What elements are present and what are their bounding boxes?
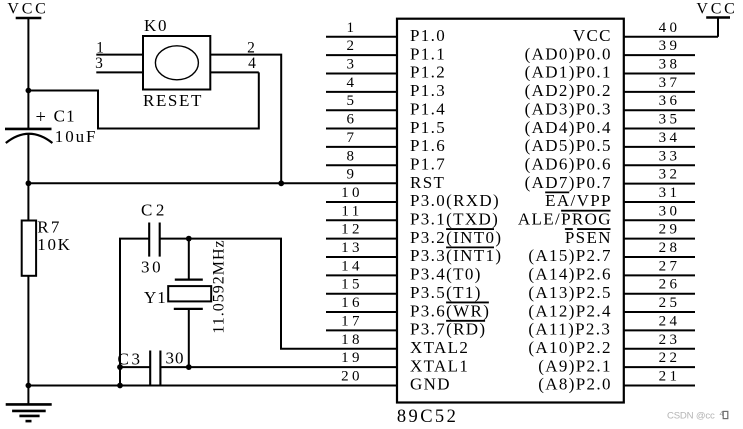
svg-text:P3.1(TXD): P3.1(TXD): [410, 210, 499, 229]
svg-text:P3.5(T1): P3.5(T1): [410, 283, 482, 302]
svg-text:XTAL2: XTAL2: [410, 338, 469, 357]
wire crystal bottom lead: [188, 309, 190, 367]
wire IC pin 6: [326, 128, 397, 130]
svg-text:39: 39: [659, 38, 681, 54]
wire IC pin 2: [326, 54, 397, 56]
svg-text:40: 40: [659, 20, 681, 36]
wire IC pin 5: [326, 109, 397, 111]
crystal Y1 body: [168, 286, 211, 301]
wire IC pin 29: [624, 238, 695, 240]
svg-text:32: 32: [659, 167, 681, 183]
wire IC pin 15: [326, 293, 397, 295]
wire IC pin 7: [326, 146, 397, 148]
svg-text:3: 3: [95, 55, 103, 72]
svg-text:XTAL1: XTAL1: [410, 356, 469, 375]
svg-text:14: 14: [341, 258, 363, 274]
wire switch pin 3: [96, 71, 143, 73]
wire GND line to IC pin 20: [28, 385, 397, 387]
svg-text:26: 26: [659, 277, 681, 293]
wire IC pin 33: [624, 164, 695, 166]
svg-text:(A13)P2.5: (A13)P2.5: [528, 283, 611, 302]
wire IC pin 22: [624, 366, 695, 368]
svg-text:P3.0(RXD): P3.0(RXD): [410, 191, 500, 210]
wire XTAL1 to IC pin 19: [160, 366, 397, 368]
wire IC pin 1: [326, 36, 397, 38]
svg-text:P1.6: P1.6: [410, 136, 446, 155]
svg-text:P3.7(RD): P3.7(RD): [410, 320, 486, 339]
svg-text:P1.2: P1.2: [410, 63, 446, 82]
ground symbol bar 2: [12, 410, 46, 413]
VCC bar (right): [706, 16, 730, 19]
pin 30 active-low overline: [561, 210, 610, 212]
pin 16 active-low overline: [446, 301, 489, 303]
svg-text:R7: R7: [37, 218, 61, 237]
wire C2 left: [120, 239, 149, 386]
node junction reset-RST: [278, 180, 284, 186]
svg-text:31: 31: [659, 185, 681, 201]
svg-text:(A15)P2.7: (A15)P2.7: [528, 246, 611, 265]
svg-text:P3.6(WR): P3.6(WR): [410, 301, 490, 320]
svg-text:20: 20: [341, 368, 363, 384]
wire C2 right to XTAL2 and IC pin 18: [160, 239, 397, 349]
svg-text:PSEN: PSEN: [565, 228, 612, 247]
svg-text:(A14)P2.6: (A14)P2.6: [528, 265, 611, 284]
resistor R7 body: [22, 221, 36, 276]
svg-text:P1.1: P1.1: [410, 44, 446, 63]
svg-text:1: 1: [347, 20, 358, 36]
svg-text:38: 38: [659, 57, 681, 73]
wire RST line to IC pin 9: [28, 182, 397, 184]
node junction crystal-bottom: [186, 364, 192, 370]
ground symbol bar 1: [6, 403, 52, 406]
svg-text:4: 4: [347, 75, 358, 91]
svg-text:(AD1)P0.1: (AD1)P0.1: [525, 63, 612, 82]
pin 29 PSEN overline part 2: [577, 228, 610, 230]
svg-text:(AD0)P0.0: (AD0)P0.0: [525, 44, 612, 63]
svg-text:22: 22: [659, 350, 681, 366]
switch K0 button circle: [155, 46, 198, 80]
svg-text:29: 29: [659, 222, 681, 238]
wire IC pin 3: [326, 73, 397, 75]
svg-text:24: 24: [659, 313, 681, 329]
wire IC pin 35: [624, 128, 695, 130]
svg-text:(A11)P2.3: (A11)P2.3: [528, 320, 611, 339]
wire IC pin 30: [624, 219, 695, 221]
wire C3 left: [119, 366, 150, 368]
wire IC pin 12: [326, 238, 397, 240]
pin 17 active-low overline: [446, 320, 485, 322]
svg-text:K0: K0: [144, 16, 168, 35]
svg-text:(A8)P2.0: (A8)P2.0: [538, 375, 612, 394]
svg-text:37: 37: [659, 75, 681, 91]
svg-text:(AD2)P0.2: (AD2)P0.2: [525, 81, 612, 100]
wire IC pin 23: [624, 348, 695, 350]
wire IC pin 21: [624, 384, 695, 386]
svg-text:13: 13: [341, 240, 363, 256]
wire IC pin 10: [326, 201, 397, 203]
wire IC pin 17: [326, 329, 397, 331]
svg-text:P3.3(INT1): P3.3(INT1): [410, 246, 502, 265]
wire switch pin 2 to RST node: [210, 55, 281, 184]
capacitor C2 right plate: [159, 223, 161, 257]
svg-text:25: 25: [659, 295, 681, 311]
ground symbol bar 3: [19, 415, 39, 418]
svg-text:6: 6: [347, 112, 358, 128]
switch K0 body: [143, 36, 210, 90]
crystal Y1 bottom plate: [174, 308, 203, 310]
capacitor C1 top plate: [5, 128, 52, 131]
svg-text:P1.3: P1.3: [410, 81, 446, 100]
svg-text:(AD3)P0.3: (AD3)P0.3: [525, 99, 612, 118]
svg-text:21: 21: [659, 368, 681, 384]
svg-text:8: 8: [347, 148, 358, 164]
node junction ground-C2C3: [117, 383, 123, 389]
svg-text:VCC: VCC: [696, 0, 737, 17]
wire IC pin 14: [326, 274, 397, 276]
node junction C3-left: [117, 364, 123, 370]
node junction RST: [26, 180, 32, 186]
svg-text:10uF: 10uF: [55, 127, 98, 146]
wire switch pin 4: [210, 71, 258, 73]
svg-text:P3.2(INT0): P3.2(INT0): [410, 228, 502, 247]
svg-text:(AD4)P0.4: (AD4)P0.4: [525, 118, 612, 137]
node junction VCC branch: [26, 88, 32, 94]
svg-text:11: 11: [341, 203, 362, 219]
wire IC pin 36: [624, 109, 695, 111]
pin 31 active-low overline: [545, 191, 569, 193]
wire VCC to C1 (main vertical): [27, 18, 29, 128]
svg-text:EA/VPP: EA/VPP: [545, 191, 612, 210]
svg-text:27: 27: [659, 258, 681, 274]
svg-text:89C52: 89C52: [397, 407, 458, 427]
svg-text:P1.4: P1.4: [410, 99, 446, 118]
svg-text:30: 30: [166, 349, 185, 368]
wire junction to reset pin4 (over-route): [28, 72, 258, 128]
svg-text:35: 35: [659, 112, 681, 128]
svg-text:Y1: Y1: [144, 288, 167, 307]
wire IC pin 8: [326, 164, 397, 166]
svg-text:7: 7: [347, 130, 358, 146]
svg-text:30: 30: [141, 257, 163, 276]
wire IC pin 34: [624, 146, 695, 148]
wire IC pin 31: [624, 201, 695, 203]
svg-text:P1.5: P1.5: [410, 118, 446, 137]
svg-text:VCC: VCC: [573, 26, 612, 45]
svg-text:(A9)P2.1: (A9)P2.1: [538, 356, 612, 375]
svg-text:4: 4: [248, 55, 256, 72]
wire IC pin 27: [624, 274, 695, 276]
svg-text:16: 16: [341, 295, 363, 311]
wire R7 to ground rail: [27, 276, 29, 386]
IC U1 89C52 body: [397, 19, 624, 403]
svg-text:GND: GND: [410, 375, 451, 394]
wire C1 to R7: [27, 135, 29, 221]
capacitor C2 left plate: [148, 223, 150, 257]
node junction ground-left: [26, 383, 32, 389]
svg-text:CSDN @cc: CSDN @cc: [667, 410, 715, 421]
svg-text:12: 12: [341, 222, 363, 238]
svg-text:36: 36: [659, 93, 681, 109]
svg-text:11.0592MHz: 11.0592MHz: [211, 239, 228, 333]
svg-text:ALE/PROG: ALE/PROG: [518, 210, 612, 229]
svg-text:10: 10: [341, 185, 363, 201]
svg-text:(AD7)P0.7: (AD7)P0.7: [525, 173, 612, 192]
wire IC pin 40: [624, 36, 718, 38]
wire IC pin 37: [624, 91, 695, 93]
crystal Y1 top plate: [175, 278, 203, 280]
svg-text:VCC: VCC: [7, 0, 48, 17]
wire IC pin 32: [624, 183, 695, 185]
wire IC pin 28: [624, 256, 695, 258]
svg-text:30: 30: [659, 203, 681, 219]
svg-text:34: 34: [659, 130, 681, 146]
svg-text:C1: C1: [54, 107, 76, 126]
svg-text:P1.0: P1.0: [410, 26, 446, 45]
pin 13 active-low overline: [446, 246, 494, 248]
watermark tofu box: [723, 411, 728, 418]
svg-text:17: 17: [341, 313, 363, 329]
node junction crystal-top: [186, 236, 192, 242]
wire IC pin 16: [326, 311, 397, 313]
capacitor C1 curved plate: [6, 134, 53, 143]
svg-text:19: 19: [341, 350, 363, 366]
svg-text:5: 5: [347, 93, 358, 109]
VCC bar (left): [16, 17, 42, 20]
svg-text:(AD6)P0.6: (AD6)P0.6: [525, 154, 612, 173]
ground symbol bar 4: [26, 420, 32, 423]
svg-text:9: 9: [347, 167, 358, 183]
wire IC pin 24: [624, 329, 695, 331]
svg-text:10K: 10K: [37, 235, 71, 254]
wire IC pin 11: [326, 219, 397, 221]
svg-text:28: 28: [659, 240, 681, 256]
pin 29 PSEN overline part 1: [565, 228, 573, 230]
svg-text:RESET: RESET: [143, 91, 203, 110]
wire ground stem: [27, 386, 29, 405]
svg-text:15: 15: [341, 277, 363, 293]
svg-text:(A10)P2.2: (A10)P2.2: [528, 338, 611, 357]
svg-text:P1.7: P1.7: [410, 154, 446, 173]
svg-text:P3.4(T0): P3.4(T0): [410, 265, 482, 284]
wire IC pin 38: [624, 73, 695, 75]
wire IC pin 25: [624, 311, 695, 313]
svg-text:33: 33: [659, 148, 681, 164]
svg-text:3: 3: [347, 57, 358, 73]
wire switch pin 1: [96, 54, 143, 56]
svg-text:18: 18: [341, 332, 363, 348]
wire crystal top lead: [188, 239, 190, 280]
wire IC pin 26: [624, 293, 695, 295]
wire IC pin 39: [624, 54, 695, 56]
wire VCC right to pin 40: [717, 18, 719, 37]
wire IC pin 4: [326, 91, 397, 93]
capacitor C3 right plate: [159, 351, 161, 386]
wire IC pin 13: [326, 256, 397, 258]
svg-text:(AD5)P0.5: (AD5)P0.5: [525, 136, 612, 155]
svg-text:RST: RST: [410, 173, 445, 192]
svg-text:23: 23: [659, 332, 681, 348]
pin 12 active-low overline: [446, 228, 494, 230]
svg-text:C2: C2: [141, 201, 168, 220]
capacitor C3 left plate: [149, 351, 151, 386]
svg-text:(A12)P2.4: (A12)P2.4: [528, 301, 611, 320]
svg-text:2: 2: [347, 38, 358, 54]
svg-text:+: +: [35, 108, 45, 128]
